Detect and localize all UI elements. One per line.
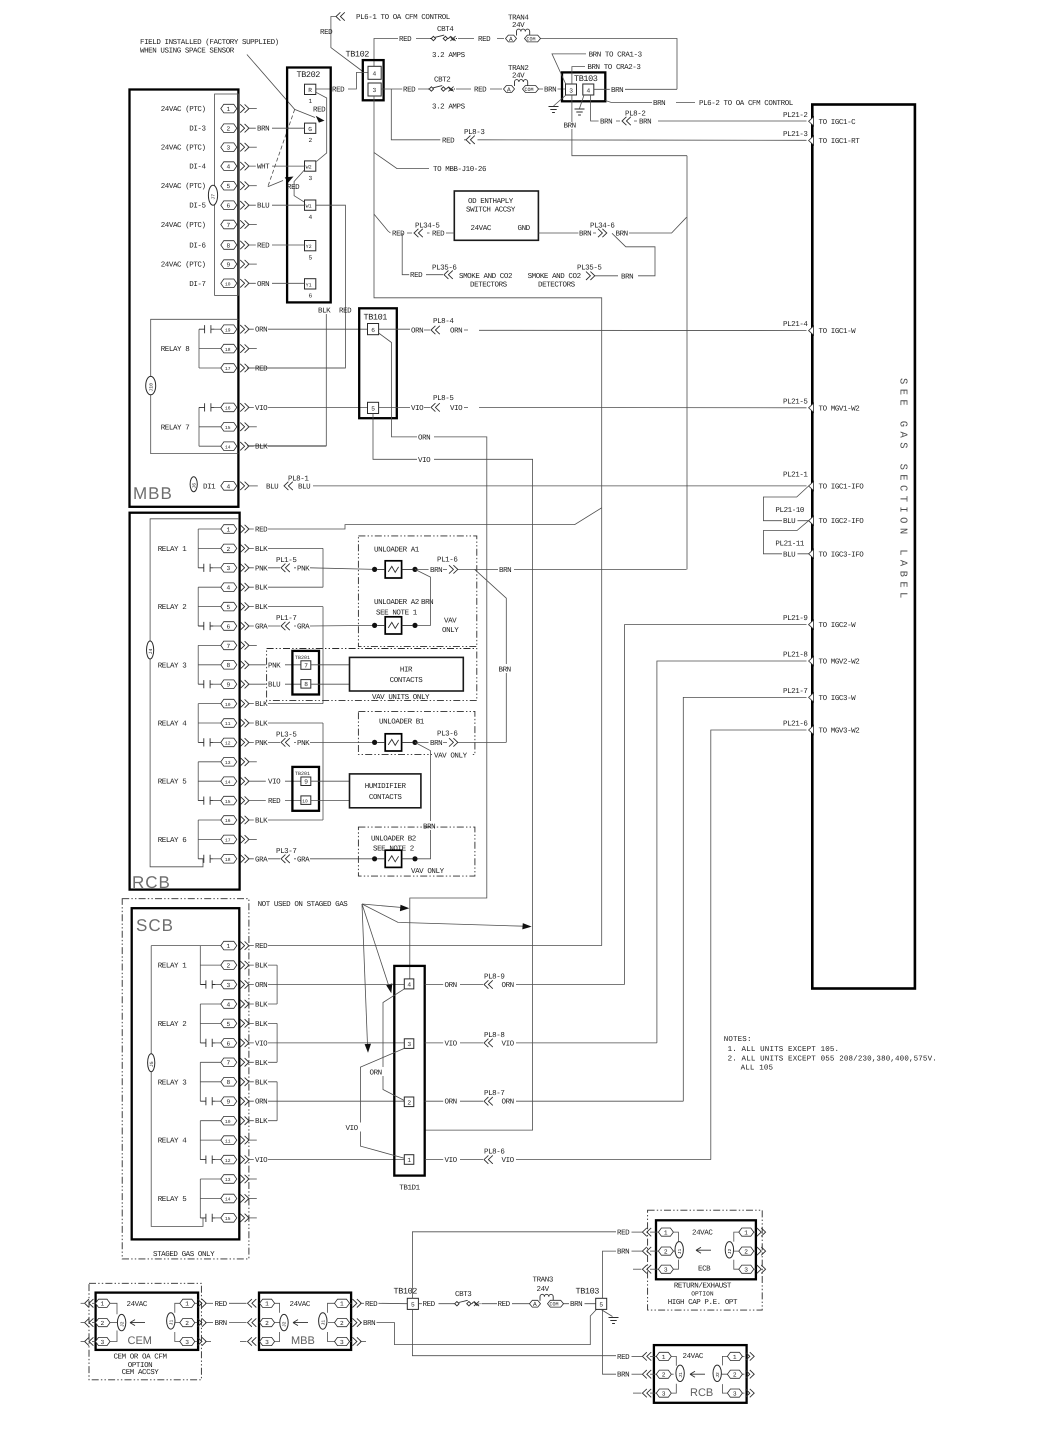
svg-text:1: 1 xyxy=(227,526,231,533)
svg-text:RELAY 3: RELAY 3 xyxy=(158,661,187,670)
pin 3 24VAC xyxy=(161,143,257,153)
pin 11 xyxy=(200,1136,256,1145)
svg-text:PL34-6: PL34-6 xyxy=(590,222,615,231)
pin 7 24VAC xyxy=(161,220,257,230)
svg-text:ONLY: ONLY xyxy=(442,626,459,635)
svg-text:RED: RED xyxy=(313,107,326,115)
svg-text:TO MGV2-W2: TO MGV2-W2 xyxy=(819,658,860,667)
svg-text:OD ENTHAPLY: OD ENTHAPLY xyxy=(468,197,514,206)
pin ECB-R1 xyxy=(734,1228,766,1242)
pin ECB-L3 stub xyxy=(633,1260,678,1274)
svg-text:24VAC: 24VAC xyxy=(290,1300,311,1309)
svg-text:PNK: PNK xyxy=(255,565,268,573)
ground at TB103-5 xyxy=(601,1309,613,1316)
pin 16 VIO (relay 7 contact) xyxy=(199,403,368,413)
svg-text:7: 7 xyxy=(227,643,231,650)
svg-text:PL21-2: PL21-2 xyxy=(783,111,808,120)
svg-text:PL21-10: PL21-10 xyxy=(775,506,804,515)
pin 12 PNK PL3-5 xyxy=(198,731,374,748)
svg-text:24VAC (PTC): 24VAC (PTC) xyxy=(161,144,206,153)
pin MBBL-1 xyxy=(260,1299,280,1313)
solenoid unloader B2 xyxy=(372,850,418,867)
svg-text:4: 4 xyxy=(227,585,231,592)
svg-text:VIO: VIO xyxy=(445,1156,458,1165)
plug PL8-4 row to PL21-4 xyxy=(379,329,807,330)
svg-text:5: 5 xyxy=(227,604,231,611)
rail J4 xyxy=(150,519,238,867)
svg-text:BRN: BRN xyxy=(564,123,576,131)
svg-text:RELAY 6: RELAY 6 xyxy=(158,836,187,845)
svg-text:GRA: GRA xyxy=(297,623,310,632)
svg-text:RCB: RCB xyxy=(132,873,171,892)
svg-text:PL8-2: PL8-2 xyxy=(625,110,645,119)
svg-text:J1: J1 xyxy=(168,1320,174,1326)
rail J6 xyxy=(151,946,203,1227)
svg-text:W1: W1 xyxy=(306,204,312,210)
stub BRN TO CRA2-3 xyxy=(572,67,585,84)
svg-text:BLU: BLU xyxy=(783,551,795,559)
leader dashed to W2-W1 jumper xyxy=(268,109,295,186)
svg-text:2: 2 xyxy=(309,137,313,144)
svg-text:BLU: BLU xyxy=(266,483,278,491)
pin 8 DI-6 RED to TB202-Y2 xyxy=(189,241,304,251)
svg-text:BRN: BRN xyxy=(499,567,511,575)
svg-text:PL21-8: PL21-8 xyxy=(783,651,808,660)
svg-text:ORN: ORN xyxy=(255,981,267,990)
svg-text:PL21-4: PL21-4 xyxy=(783,320,808,329)
svg-text:ORN: ORN xyxy=(370,1069,382,1078)
svg-text:TO IGC3-W: TO IGC3-W xyxy=(819,694,857,703)
svg-text:1: 1 xyxy=(662,1354,666,1361)
svg-text:PNK: PNK xyxy=(297,740,310,748)
pin 9 ORN to TB1D1-2 xyxy=(200,1097,404,1107)
svg-text:DI-6: DI-6 xyxy=(189,242,206,251)
transformer TRAN3 xyxy=(530,1276,564,1309)
svg-text:TB202: TB202 xyxy=(297,70,321,80)
pin 15 RED to TB201-10 xyxy=(198,796,301,806)
pin ECB-L1 RED xyxy=(617,1228,678,1242)
svg-text:2: 2 xyxy=(664,1249,668,1256)
svg-text:1: 1 xyxy=(340,1301,344,1308)
connector J2 (MBB lower) xyxy=(280,1314,288,1330)
svg-text:RED: RED xyxy=(268,798,281,806)
svg-text:TB201: TB201 xyxy=(295,655,310,661)
svg-text:CBT3: CBT3 xyxy=(455,1290,472,1299)
pin 14 xyxy=(200,1194,256,1203)
svg-text:RELAY 1: RELAY 1 xyxy=(158,546,187,554)
terminal G xyxy=(305,123,316,133)
svg-text:1. ALL UNITS EXCEPT 105.: 1. ALL UNITS EXCEPT 105. xyxy=(728,1045,840,1054)
svg-text:6: 6 xyxy=(371,327,375,334)
pin CEM-L2 xyxy=(81,1318,118,1327)
svg-text:VAV UNITS ONLY: VAV UNITS ONLY xyxy=(372,693,430,702)
pin 16 BLK xyxy=(198,816,323,826)
svg-text:COM: COM xyxy=(527,37,536,43)
svg-text:VIO: VIO xyxy=(255,404,268,413)
svg-text:BRN: BRN xyxy=(579,231,591,239)
wire RED W1 to TB101 area and MBB pin 17 xyxy=(247,205,345,368)
svg-text:VIO: VIO xyxy=(418,456,431,465)
svg-text:24VAC: 24VAC xyxy=(692,1229,713,1238)
terminal TB102-5 xyxy=(394,1287,419,1310)
svg-text:2. ALL UNITS EXCEPT 055 208/23: 2. ALL UNITS EXCEPT 055 208/230,380,400,… xyxy=(728,1055,937,1064)
svg-text:BLK: BLK xyxy=(255,1060,268,1068)
box unloader B2 (dash-dot) xyxy=(358,827,475,876)
svg-text:2: 2 xyxy=(407,1099,411,1106)
svg-text:UNLOADER A1: UNLOADER A1 xyxy=(374,546,420,555)
svg-text:BRN: BRN xyxy=(363,1320,375,1328)
svg-text:9: 9 xyxy=(304,779,308,786)
svg-text:A: A xyxy=(507,86,511,93)
svg-text:HUMIDIFIER: HUMIDIFIER xyxy=(365,783,407,791)
wire TRAN4 COM to TB103-4 BRN xyxy=(541,39,678,90)
svg-text:GRA: GRA xyxy=(255,855,268,864)
pin 17 xyxy=(198,835,257,844)
svg-text:BLK: BLK xyxy=(255,721,268,729)
svg-text:RED: RED xyxy=(332,87,345,95)
svg-text:R: R xyxy=(308,87,312,94)
wire BLK bracket pins 8-10 xyxy=(276,1082,278,1121)
box HIR CONTACTS xyxy=(350,657,464,691)
fuse CBT4 xyxy=(430,35,457,41)
svg-text:RED: RED xyxy=(255,527,268,535)
svg-text:14: 14 xyxy=(225,444,231,450)
terminal block TB101 xyxy=(359,308,397,418)
wire BLK drop to MBB pin 14 xyxy=(247,314,326,446)
svg-text:17: 17 xyxy=(225,366,231,372)
stub MBB-L3 xyxy=(240,1341,247,1343)
svg-text:BRN: BRN xyxy=(430,567,442,575)
arrow to VIO jumper xyxy=(362,904,368,1045)
svg-text:9: 9 xyxy=(227,682,231,689)
svg-text:2: 2 xyxy=(227,126,231,133)
pin 15 xyxy=(199,423,257,432)
board SCB xyxy=(132,908,240,1239)
pin 2 BLK xyxy=(198,544,323,554)
terminal Y1 xyxy=(305,279,316,289)
svg-text:4: 4 xyxy=(227,164,231,171)
svg-text:ECB: ECB xyxy=(698,1265,711,1274)
svg-text:RED: RED xyxy=(255,943,268,951)
svg-text:HIGH CAP P.E. OPT: HIGH CAP P.E. OPT xyxy=(668,1298,738,1307)
svg-text:TO IGC2-IFO: TO IGC2-IFO xyxy=(819,517,865,526)
svg-text:RELAY 2: RELAY 2 xyxy=(158,1020,187,1029)
svg-text:24V: 24V xyxy=(537,1285,550,1294)
svg-text:PL3-7: PL3-7 xyxy=(276,847,296,856)
connector J1 (RCB lower) xyxy=(676,1365,684,1381)
plug PL8-2 to PL21-2 xyxy=(591,95,807,121)
svg-text:BLK: BLK xyxy=(255,1002,268,1010)
arrow at J2 xyxy=(130,1320,145,1326)
svg-text:6: 6 xyxy=(227,203,231,210)
svg-text:5: 5 xyxy=(227,183,231,190)
svg-text:PL8-4: PL8-4 xyxy=(433,317,454,326)
terminal Y2 xyxy=(305,241,316,251)
svg-text:MBB: MBB xyxy=(291,1335,315,1347)
svg-text:2: 2 xyxy=(185,1320,189,1327)
svg-text:BLK: BLK xyxy=(255,1021,268,1029)
svg-text:4: 4 xyxy=(309,214,313,221)
svg-text:TO IGC1-C: TO IGC1-C xyxy=(819,118,857,127)
terminal W1 xyxy=(305,200,316,210)
svg-text:1: 1 xyxy=(227,106,231,113)
svg-text:PL6-2 TO OA CFM CONTROL: PL6-2 TO OA CFM CONTROL xyxy=(699,99,794,108)
svg-text:BRN: BRN xyxy=(499,667,511,675)
svg-text:BLK: BLK xyxy=(255,546,268,554)
svg-text:PL8-7: PL8-7 xyxy=(484,1089,504,1098)
svg-text:BRN: BRN xyxy=(430,740,442,748)
svg-text:BRN: BRN xyxy=(611,87,623,95)
plug PL8-7 ORN xyxy=(425,1100,684,1102)
svg-text:3: 3 xyxy=(664,1267,668,1274)
svg-text:BRN: BRN xyxy=(617,1372,629,1380)
svg-text:DETECTORS: DETECTORS xyxy=(538,281,576,290)
svg-text:19: 19 xyxy=(225,327,231,333)
svg-text:12: 12 xyxy=(225,1158,231,1164)
svg-text:SCB: SCB xyxy=(136,916,174,935)
plug PL34-6 xyxy=(538,217,686,233)
box staged gas only (dash-dot) xyxy=(122,899,249,1259)
svg-text:8: 8 xyxy=(227,662,231,669)
box unloader A group (dash-dot) xyxy=(358,536,476,647)
svg-text:2: 2 xyxy=(733,1372,737,1379)
svg-text:RELAY 5: RELAY 5 xyxy=(158,1196,187,1204)
svg-text:BRN: BRN xyxy=(639,119,651,127)
svg-text:3: 3 xyxy=(185,1339,189,1346)
pin CEM-L3 xyxy=(81,1331,117,1346)
wires TB201 to humidifier contacts xyxy=(311,781,350,800)
svg-text:VIO: VIO xyxy=(450,404,463,413)
pin RCBR-3 xyxy=(722,1384,754,1397)
svg-text:3.2 AMPS: 3.2 AMPS xyxy=(432,51,466,60)
pin 5 BLK xyxy=(198,602,323,612)
rail J10 xyxy=(151,319,239,453)
svg-text:PL21-3: PL21-3 xyxy=(783,130,808,139)
svg-text:PL21-9: PL21-9 xyxy=(783,614,808,623)
svg-text:PL35-5: PL35-5 xyxy=(577,264,602,273)
svg-text:TO MGV3-W2: TO MGV3-W2 xyxy=(819,727,860,736)
pin 4 BLK xyxy=(198,583,323,593)
svg-text:COM: COM xyxy=(550,1302,559,1308)
svg-text:RED: RED xyxy=(423,1301,436,1309)
svg-text:7: 7 xyxy=(227,1060,231,1067)
svg-text:ORN: ORN xyxy=(502,981,514,990)
svg-text:CEM OR OA CFM: CEM OR OA CFM xyxy=(113,1352,167,1361)
svg-text:3.2 AMPS: 3.2 AMPS xyxy=(432,103,466,112)
svg-text:3: 3 xyxy=(227,982,231,989)
pin MBBR-3 xyxy=(328,1332,367,1346)
svg-text:TO IGC3-IFO: TO IGC3-IFO xyxy=(819,550,865,559)
svg-text:18: 18 xyxy=(225,347,231,353)
pin 4 DI1 PL8-1 BLU xyxy=(190,475,806,492)
svg-text:4: 4 xyxy=(373,71,377,78)
svg-text:PL1-6: PL1-6 xyxy=(437,556,458,565)
svg-text:RED: RED xyxy=(442,137,455,145)
svg-text:BLK: BLK xyxy=(255,1079,268,1087)
svg-text:11: 11 xyxy=(225,721,231,727)
svg-text:2: 2 xyxy=(227,963,231,970)
pin RCBR-1 xyxy=(722,1352,754,1365)
pin 13 xyxy=(200,1175,256,1184)
pin 13 xyxy=(198,758,257,767)
svg-text:7: 7 xyxy=(227,222,231,229)
svg-text:CBT4: CBT4 xyxy=(437,25,454,34)
ground under TB103-3 xyxy=(554,95,567,106)
svg-text:1: 1 xyxy=(309,98,313,105)
svg-text:RED: RED xyxy=(403,87,416,95)
leader to R-W2 jumper xyxy=(247,55,315,118)
svg-text:A: A xyxy=(533,1301,537,1308)
svg-text:BLK: BLK xyxy=(255,1118,268,1126)
svg-text:10: 10 xyxy=(225,282,231,288)
svg-text:UNLOADER B1: UNLOADER B1 xyxy=(379,718,425,727)
wire TB202-R to TB102-4 xyxy=(316,73,368,90)
svg-text:5: 5 xyxy=(309,255,313,262)
svg-text:BRN TO CRA1-3: BRN TO CRA1-3 xyxy=(589,50,643,59)
svg-text:3: 3 xyxy=(407,1041,411,1048)
svg-text:17: 17 xyxy=(225,838,231,844)
board RCB (lower) xyxy=(654,1345,747,1403)
node PL21-6 + wire to PL8-6 xyxy=(711,730,807,1160)
svg-text:Y1: Y1 xyxy=(306,282,312,288)
plug PL8-6 VIO xyxy=(425,1159,711,1161)
pin 3 PNK PL1-5 xyxy=(198,557,374,573)
wires TB201 to HIR contacts xyxy=(311,665,350,684)
pin 6 DI-5 BLU to TB202-W1 xyxy=(189,201,304,211)
arrow to VIO feed xyxy=(362,904,524,926)
svg-text:BRN: BRN xyxy=(421,599,433,607)
wire CBT3 line xyxy=(418,1303,595,1305)
svg-text:15: 15 xyxy=(225,425,231,431)
svg-text:J10: J10 xyxy=(148,383,154,392)
box HUMIDIFIER CONTACTS xyxy=(350,774,421,808)
connector J1 (CEM) xyxy=(167,1313,175,1329)
pin MBBL-3 xyxy=(260,1332,280,1346)
svg-text:DI-3: DI-3 xyxy=(189,125,206,134)
wire hook PL21-10 BLU xyxy=(763,486,808,521)
svg-text:WHT: WHT xyxy=(257,164,270,172)
svg-text:RED: RED xyxy=(617,1354,630,1362)
svg-text:2: 2 xyxy=(744,1249,748,1256)
pin CEM-L1 xyxy=(81,1299,117,1314)
svg-text:SEE GAS SECTION LABEL: SEE GAS SECTION LABEL xyxy=(897,378,909,603)
pin CEM-R1 xyxy=(175,1299,213,1313)
svg-text:PL3-5: PL3-5 xyxy=(276,731,297,740)
svg-text:UNLOADER A2: UNLOADER A2 xyxy=(374,598,419,607)
svg-text:RELAY 3: RELAY 3 xyxy=(158,1078,187,1087)
node PL21-7 + wire to PL8-7 xyxy=(683,697,806,1101)
svg-text:14: 14 xyxy=(225,779,231,785)
svg-text:RED: RED xyxy=(474,87,487,95)
connector J2 (CEM) xyxy=(117,1314,125,1330)
board MBB xyxy=(130,90,239,507)
wire ORN TB101-6 down-feed xyxy=(379,333,487,979)
svg-text:3: 3 xyxy=(733,1391,737,1398)
svg-text:BLK: BLK xyxy=(255,818,268,826)
svg-text:5: 5 xyxy=(371,406,375,413)
svg-text:RELAY 8: RELAY 8 xyxy=(161,345,190,354)
svg-text:RELAY 2: RELAY 2 xyxy=(158,603,187,612)
svg-text:HIR: HIR xyxy=(400,667,413,675)
svg-text:BLU: BLU xyxy=(783,518,795,526)
svg-text:5: 5 xyxy=(227,1021,231,1028)
plug PL8-3 to PL21-3 xyxy=(391,89,806,140)
node PL21-4 xyxy=(783,320,856,336)
wire RED net TB102-3 to RCB-1 / SCB-1 xyxy=(374,96,602,946)
svg-text:J1: J1 xyxy=(677,1248,683,1254)
stub TO MBB-J10-26 xyxy=(374,152,429,168)
pin 11 BLK xyxy=(198,719,323,729)
svg-text:1: 1 xyxy=(744,1230,748,1237)
svg-text:J2: J2 xyxy=(119,1321,125,1327)
svg-text:SMOKE AND CO2: SMOKE AND CO2 xyxy=(459,272,512,281)
wire PL6-1 to TB102-4 xyxy=(331,17,363,72)
svg-text:DETECTORS: DETECTORS xyxy=(470,281,508,290)
svg-text:PL8-3: PL8-3 xyxy=(464,128,485,137)
pin ECB-R3 xyxy=(734,1260,766,1274)
svg-text:DI-7: DI-7 xyxy=(189,281,205,289)
svg-text:2: 2 xyxy=(101,1320,105,1327)
svg-text:PL21-6: PL21-6 xyxy=(783,720,808,729)
svg-text:BLK: BLK xyxy=(255,963,268,971)
wire BLK bracket pins 11-16 xyxy=(322,723,324,820)
ground under TB103-4 xyxy=(580,95,585,109)
svg-text:RED: RED xyxy=(339,308,352,316)
pin 7 BLK xyxy=(200,1058,277,1068)
box CEM option (dash-dot) xyxy=(89,1283,201,1380)
terminal block TB202 xyxy=(287,68,331,303)
plug PL6-1 callout xyxy=(336,12,451,22)
svg-text:3: 3 xyxy=(340,1339,344,1346)
svg-text:VAV ONLY: VAV ONLY xyxy=(411,867,445,876)
plug PL8-5 row to PL21-5 xyxy=(379,406,807,408)
svg-text:3: 3 xyxy=(373,87,377,94)
svg-text:RED: RED xyxy=(478,36,491,44)
svg-text:VIO: VIO xyxy=(255,1039,268,1048)
wire BLK bracket pins 2-4 xyxy=(276,965,278,1004)
svg-text:BLU: BLU xyxy=(257,203,269,211)
plug PL8-9 ORN xyxy=(425,984,625,986)
svg-text:4: 4 xyxy=(227,483,231,490)
svg-text:TB103: TB103 xyxy=(574,74,598,84)
svg-text:RED: RED xyxy=(410,272,423,280)
svg-text:BLK: BLK xyxy=(255,701,268,709)
svg-text:4: 4 xyxy=(227,1001,231,1008)
pin 5 24VAC xyxy=(161,181,257,191)
svg-text:BRN: BRN xyxy=(215,1320,227,1328)
pin 2 BLK xyxy=(200,961,277,971)
svg-text:11: 11 xyxy=(225,1138,231,1144)
svg-text:SMOKE AND CO2: SMOKE AND CO2 xyxy=(528,272,581,281)
svg-text:6: 6 xyxy=(227,1040,231,1047)
node PL21-2 xyxy=(783,111,856,127)
svg-text:5: 5 xyxy=(599,1302,603,1309)
pin 10 BLK xyxy=(200,1116,277,1126)
wire TB103-3 down BRN xyxy=(572,95,687,156)
svg-text:1: 1 xyxy=(664,1230,668,1237)
svg-text:ORN: ORN xyxy=(411,327,423,336)
svg-text:3: 3 xyxy=(265,1339,269,1346)
pin CEM-R2 xyxy=(175,1318,213,1327)
svg-text:RETURN/EXHAUST: RETURN/EXHAUST xyxy=(674,1281,732,1290)
svg-text:ORN: ORN xyxy=(418,433,430,442)
pin MBBR-2 xyxy=(328,1318,362,1327)
svg-text:RCB: RCB xyxy=(690,1387,713,1399)
wire BLK bracket pins 2-4 xyxy=(322,548,324,587)
svg-text:16: 16 xyxy=(225,818,231,824)
jumper R to W2 xyxy=(316,92,327,161)
plug PL1-6 BRN xyxy=(418,568,687,570)
